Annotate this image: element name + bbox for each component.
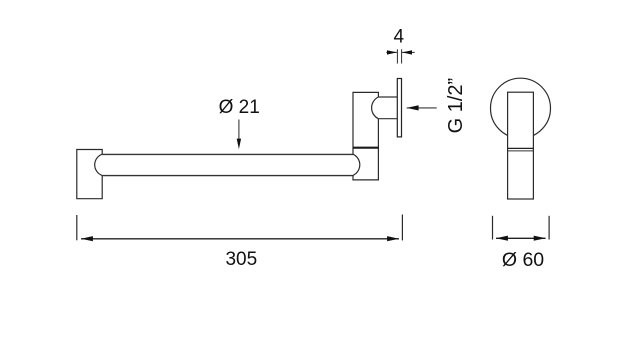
dia 21 leader arrow — [238, 120, 240, 141]
svg-text:Ø 60: Ø 60 — [502, 249, 544, 271]
dim 4 left arrow — [386, 51, 397, 53]
G 1/2 arrow — [407, 107, 437, 109]
tube-body intersection arc — [353, 154, 360, 175]
body upper part — [353, 92, 378, 147]
dim 305 right arrowhead — [387, 236, 399, 241]
end cap intersection arc — [95, 154, 103, 175]
swivel joint line — [353, 147, 379, 149]
left end cap — [77, 150, 102, 199]
svg-text:G 1/2”: G 1/2” — [445, 78, 467, 134]
dim 60 right arrowhead — [534, 236, 546, 241]
side view joint line 1 — [508, 147, 534, 149]
side view joint line 2 — [508, 150, 534, 152]
wall stub top line — [378, 96, 397, 98]
dim 4 left extension tick — [396, 49, 398, 63]
stub-body intersection arc — [372, 97, 379, 119]
svg-text:305: 305 — [225, 249, 257, 270]
spout tube top line — [102, 153, 353, 155]
wall stub bottom line — [378, 118, 397, 120]
dim 305 right extension line — [401, 215, 403, 241]
dim 60 left extension line — [492, 216, 494, 240]
dim 4 right arrow — [402, 51, 415, 53]
svg-text:Ø 21: Ø 21 — [219, 97, 260, 118]
svg-text:4: 4 — [394, 26, 405, 47]
dim 60 line — [496, 237, 546, 239]
dim 60 right extension line — [548, 216, 550, 240]
wall flange edge view — [397, 79, 401, 137]
side view body rectangle — [508, 92, 534, 199]
side view flange circle — [491, 78, 551, 138]
dim 305 line — [81, 238, 399, 240]
spout tube bottom line — [102, 175, 353, 177]
dim 305 left extension line — [76, 215, 78, 240]
body lower (swivel) part — [353, 148, 378, 180]
dim 305 left arrowhead — [81, 236, 93, 241]
dim 4 right extension tick — [401, 49, 403, 63]
dim 60 left arrowhead — [496, 236, 508, 241]
